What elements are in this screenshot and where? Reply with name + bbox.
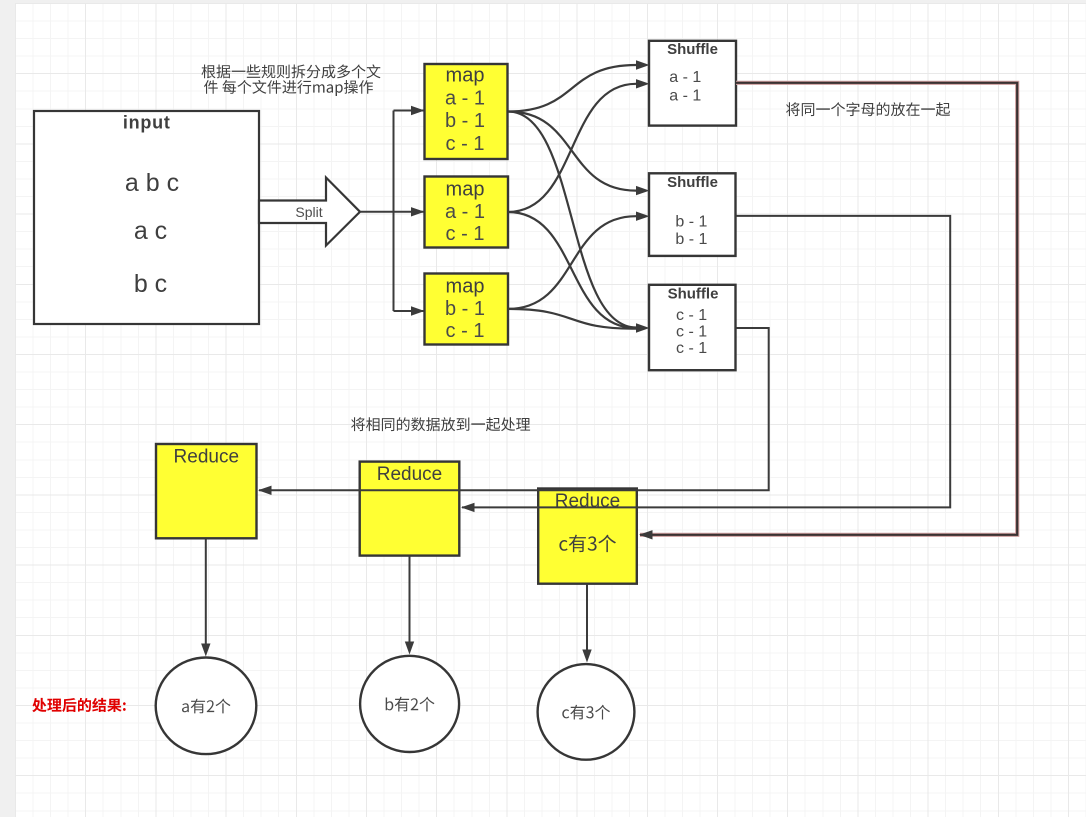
arrowhead into shuffle2 upper (636, 186, 650, 195)
svg-text:Reduce: Reduce (555, 491, 621, 512)
note same letter together (786, 102, 950, 116)
result circle c (538, 664, 635, 760)
svg-text:c - 1: c - 1 (676, 323, 707, 340)
result circle a (156, 658, 257, 755)
map box 2 (425, 177, 509, 248)
svg-text:input: input (123, 113, 171, 133)
wire shuffle1 to reduce3 (640, 83, 1017, 535)
svg-text:b - 1: b - 1 (445, 110, 485, 132)
svg-text:b - 1: b - 1 (675, 231, 707, 248)
wire shuffle3 to reduce1 (259, 328, 769, 490)
svg-text:map: map (446, 65, 485, 87)
shuffle box 3 (649, 285, 736, 370)
svg-text:c - 1: c - 1 (446, 223, 485, 245)
reduce box 1 (156, 444, 257, 538)
svg-text:b - 1: b - 1 (675, 213, 707, 230)
arrowhead into circle a (201, 644, 210, 657)
curve map3 to shuffle2 (508, 216, 636, 309)
svg-text:c - 1: c - 1 (446, 133, 485, 155)
arrowhead into map3 (411, 306, 425, 315)
wire reduce1 to circle a (205, 539, 207, 644)
svg-text:b - 1: b - 1 (445, 298, 485, 320)
svg-text:Reduce: Reduce (174, 446, 240, 467)
svg-text:map: map (446, 179, 485, 201)
circle a label (182, 699, 231, 714)
svg-text:Split: Split (295, 204, 322, 220)
svg-text:a - 1: a - 1 (445, 87, 485, 109)
svg-text:c - 1: c - 1 (676, 307, 707, 324)
svg-text:Shuffle: Shuffle (668, 286, 719, 303)
curve map2 to shuffle3 (508, 212, 636, 328)
curve map1 to shuffle3 (508, 112, 636, 328)
note split rule line1 (202, 64, 381, 78)
arrowhead into map2 (411, 207, 425, 216)
red label processed result (32, 698, 126, 712)
reduce box 3 (538, 489, 637, 584)
arrowhead into circle c (582, 650, 591, 663)
circle c label (562, 705, 610, 720)
svg-text:map: map (446, 276, 485, 298)
curve map1 to shuffle2 (508, 112, 636, 191)
svg-text:b c: b c (134, 270, 167, 298)
input box (34, 111, 259, 324)
svg-text:c - 1: c - 1 (446, 320, 485, 342)
svg-text:Reduce: Reduce (377, 464, 443, 485)
svg-text:a c: a c (134, 217, 167, 245)
map box 3 (425, 274, 509, 345)
wire reduce3 to circle c (586, 584, 588, 650)
arrowhead into circle b (405, 642, 414, 655)
svg-text:a - 1: a - 1 (445, 201, 485, 223)
svg-text:c - 1: c - 1 (676, 340, 707, 357)
arrowhead into reduce3 (639, 530, 653, 539)
circle b label (386, 697, 435, 712)
svg-text:a b c: a b c (125, 169, 179, 197)
note same data processed together (351, 417, 530, 431)
arrowhead into shuffle1 upper (636, 60, 650, 69)
arrowhead into shuffle2 lower (636, 212, 650, 221)
note split rule line2 (204, 80, 373, 96)
split block arrow (259, 178, 360, 246)
map box 1 (425, 64, 508, 159)
svg-text:Shuffle: Shuffle (667, 174, 718, 191)
arrowhead into shuffle3 (636, 323, 650, 332)
wire shuffle2 to reduce2 (462, 216, 950, 508)
curve map1 to shuffle1 (508, 65, 636, 112)
curve map2 to shuffle1 (508, 84, 636, 212)
arrowhead into map1 (411, 106, 425, 115)
shuffle box 1 (649, 41, 736, 126)
reduce box 2 (360, 462, 460, 556)
svg-text:Shuffle: Shuffle (667, 41, 718, 58)
arrowhead into shuffle1 lower (636, 79, 650, 88)
result circle b (360, 656, 459, 752)
wire reduce2 to circle b (409, 556, 411, 642)
arrowhead into reduce1 (258, 486, 272, 495)
arrowhead into reduce2 (461, 503, 475, 512)
curve map3 to shuffle3 (508, 309, 636, 329)
wire shuffle1 to reduce3 red fringe (640, 83, 1017, 535)
wire split to maps trunk (360, 111, 424, 312)
svg-text:a - 1: a - 1 (669, 87, 701, 104)
svg-text:a - 1: a - 1 (669, 69, 701, 86)
reduce 3 label c you 3 ge (559, 535, 616, 553)
shuffle box 2 (649, 173, 736, 256)
